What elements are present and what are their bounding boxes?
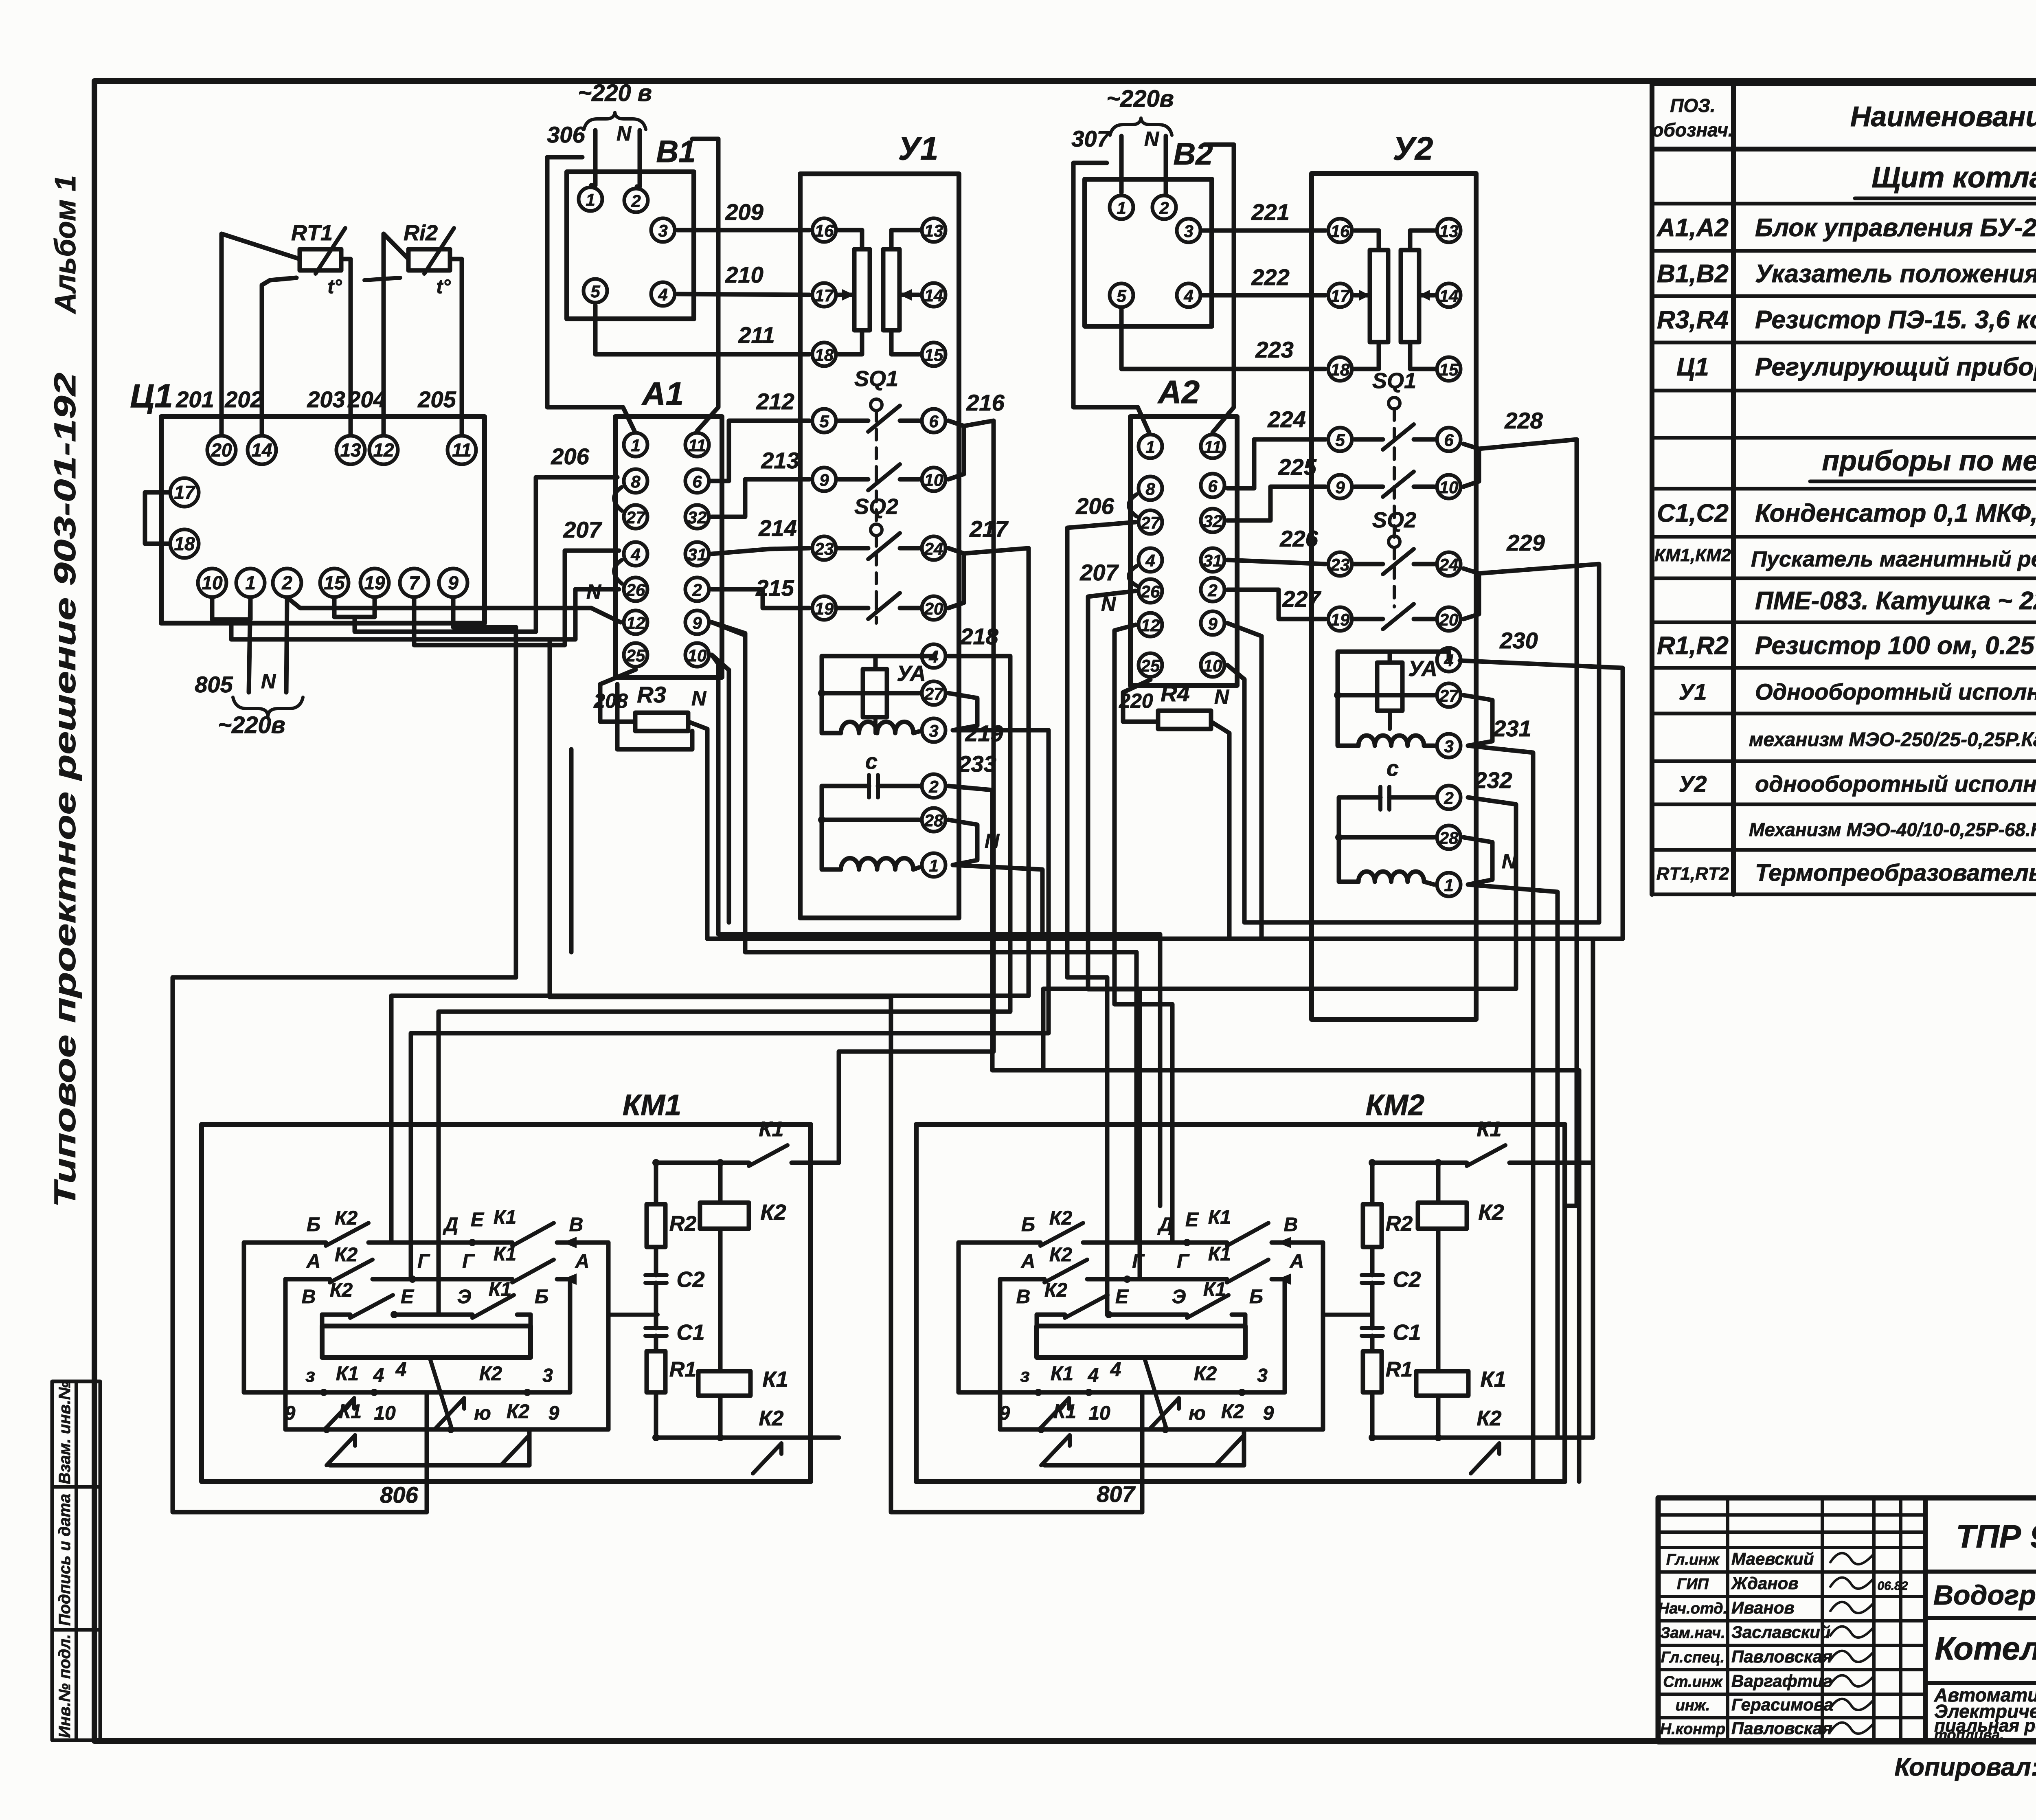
КМ1 resistor R1: [647, 1351, 665, 1392]
КМ2 capacitor C1: [1362, 1326, 1383, 1330]
svg-text:26: 26: [1141, 582, 1160, 601]
wire N into B1-2: [637, 130, 640, 187]
svg-text:К1: К1: [759, 1117, 784, 1141]
regulator block Ц1: [161, 417, 485, 623]
svg-text:Жданов: Жданов: [1731, 1574, 1799, 1593]
svg-text:Г: Г: [417, 1251, 430, 1272]
svg-text:К2: К2: [1049, 1244, 1073, 1266]
svg-text:SQ2: SQ2: [854, 494, 898, 519]
КМ2 C1 node link: [1323, 1313, 1372, 1317]
svg-text:Ст.инж: Ст.инж: [1663, 1673, 1723, 1690]
svg-text:11: 11: [1204, 437, 1222, 457]
svg-text:RТ1,RТ2: RТ1,RТ2: [1656, 864, 1729, 884]
КМ2 row2 left drop: [998, 1279, 1003, 1429]
R3 left lead: [600, 670, 636, 722]
svg-text:Н.контр: Н.контр: [1660, 1721, 1725, 1738]
svg-text:Д: Д: [443, 1214, 459, 1236]
svg-text:229: 229: [1506, 530, 1545, 555]
bus 1403 drop: [569, 749, 574, 952]
wire 206 into A2-27: [1067, 522, 1136, 1315]
thermocouple RT2: [408, 249, 450, 270]
SQ1 contact 5-6: [839, 419, 868, 423]
svg-text:К1: К1: [762, 1367, 788, 1392]
svg-text:213: 213: [761, 448, 799, 473]
brace 220v bottom: [233, 697, 303, 716]
У2 cap bracket: [1339, 797, 1371, 882]
A1-У1 wire 215: [712, 589, 810, 608]
wire 223: [1121, 310, 1325, 369]
relay УА of У2: [1377, 663, 1402, 711]
svg-text:28: 28: [924, 811, 943, 830]
У1 pot wiring 17 arrow: [839, 293, 854, 297]
svg-text:31: 31: [688, 545, 707, 564]
parts table grid: [1650, 83, 1654, 894]
svg-text:К2: К2: [1221, 1401, 1244, 1423]
B2 terminals: [1110, 195, 1133, 219]
svg-text:А: А: [306, 1251, 321, 1272]
svg-text:5: 5: [590, 282, 600, 301]
svg-text:В: В: [569, 1214, 584, 1236]
svg-text:С1: С1: [676, 1320, 704, 1345]
svg-text:15: 15: [924, 345, 943, 364]
svg-text:19: 19: [1331, 610, 1350, 629]
svg-text:R3,R4: R3,R4: [1657, 306, 1729, 334]
КМ2 motor diagonal: [1144, 1357, 1167, 1429]
svg-text:з: з: [305, 1365, 315, 1386]
svg-text:17: 17: [815, 286, 834, 305]
КМ1 K2 auxiliary contact bottom: [747, 1436, 839, 1440]
A1 bottom loop: [617, 684, 692, 749]
svg-text:Ц1: Ц1: [130, 378, 173, 415]
У2 N return: [1468, 885, 1558, 1438]
svg-text:1: 1: [1145, 437, 1155, 457]
svg-text:К2: К2: [1049, 1207, 1073, 1229]
svg-text:20: 20: [211, 439, 232, 461]
svg-text:Павловская: Павловская: [1731, 1719, 1832, 1738]
svg-text:Механизм МЭО-40/10-0,25Р-68.Ка: Механизм МЭО-40/10-0,25Р-68.Катушка~220в: [1749, 819, 2036, 840]
svg-text:А1: А1: [641, 375, 684, 412]
svg-text:К2: К2: [1044, 1280, 1068, 1301]
КМ1 row2 left drop: [283, 1279, 288, 1429]
svg-text:9: 9: [692, 613, 702, 632]
УА link: [873, 656, 878, 669]
svg-text:205: 205: [417, 386, 456, 412]
svg-text:R2: R2: [669, 1212, 697, 1236]
svg-text:5: 5: [1117, 286, 1126, 305]
svg-text:Инв.№ подл.: Инв.№ подл.: [56, 1634, 74, 1738]
svg-text:18: 18: [815, 345, 834, 364]
A1 bridge 4-26: [614, 560, 622, 584]
svg-text:У2: У2: [1678, 771, 1707, 797]
svg-text:11: 11: [688, 436, 706, 455]
A1-У1 wire 213: [712, 479, 810, 517]
У1 slide resistor left: [854, 249, 870, 330]
svg-text:Подпись и дата: Подпись и дата: [56, 1494, 74, 1626]
wire 306 into B1-1: [591, 130, 595, 185]
svg-text:3: 3: [658, 221, 667, 240]
У2 pot wiring 15: [1410, 342, 1434, 369]
svg-text:механизм МЭО-250/25-0,25Р.Кату: механизм МЭО-250/25-0,25Р.Катушка~220в: [1749, 729, 2036, 751]
У1 pot wiring 14 arrow: [900, 293, 919, 297]
svg-text:306: 306: [547, 122, 585, 147]
svg-text:10: 10: [1439, 478, 1459, 497]
svg-text:~220в: ~220в: [218, 712, 285, 738]
svg-text:R1: R1: [669, 1358, 696, 1381]
svg-text:А1,А2: А1,А2: [1656, 214, 1729, 242]
КМ2 resistor R2: [1363, 1204, 1382, 1247]
sidebar cell Инв.№ подл.: [52, 1630, 100, 1740]
svg-text:з: з: [1020, 1365, 1029, 1386]
svg-text:27: 27: [626, 508, 646, 527]
svg-text:R1: R1: [1386, 1358, 1413, 1381]
svg-text:А2: А2: [1157, 374, 1200, 410]
svg-text:221: 221: [1251, 199, 1289, 225]
svg-text:6: 6: [1444, 430, 1454, 450]
svg-text:18: 18: [174, 533, 195, 554]
svg-text:10: 10: [374, 1403, 396, 1424]
У2 232 return: [1043, 797, 1516, 1070]
У2 loop 28-1: [1463, 837, 1492, 885]
svg-text:К1: К1: [494, 1243, 516, 1265]
У2 229 run: [1479, 564, 1599, 922]
wire 233 link: [992, 1068, 1043, 1073]
svg-text:обознач.: обознач.: [1652, 119, 1733, 141]
svg-text:Е: Е: [1115, 1286, 1129, 1308]
svg-text:В1: В1: [656, 134, 695, 169]
svg-text:5: 5: [1335, 430, 1345, 450]
svg-text:Е: Е: [1185, 1209, 1199, 1231]
svg-text:2: 2: [1159, 198, 1169, 217]
svg-text:К2: К2: [760, 1200, 786, 1225]
svg-text:806: 806: [380, 1482, 418, 1508]
svg-text:8: 8: [631, 472, 641, 491]
У1 loop 24-20: [948, 548, 964, 608]
КМ1 bottom node wire: [656, 1436, 747, 1440]
svg-text:18: 18: [1331, 360, 1350, 379]
У1 pot wiring 18: [839, 330, 862, 354]
КМ1 contact row В-Б: [322, 1313, 350, 1317]
У2 pot wiring 14 arrow: [1419, 293, 1434, 298]
svg-text:Е: Е: [401, 1286, 415, 1308]
svg-text:однооборотный исполнительный: однооборотный исполнительный: [1755, 771, 2036, 797]
svg-text:1: 1: [245, 572, 256, 593]
Ц1 hook 10-1: [212, 597, 231, 619]
У2 SQ2 contact 19-20: [1355, 617, 1383, 621]
КМ1 resistor R2: [647, 1204, 665, 1247]
N bus horizontal: [707, 939, 1593, 1438]
svg-text:Б: Б: [307, 1214, 320, 1236]
A1 terminals: [624, 433, 647, 457]
brace 220в B2: [1110, 118, 1172, 135]
svg-text:Б: Б: [535, 1286, 548, 1308]
КМ2 bottom row 9-К1-10: [1000, 1427, 1323, 1432]
КМ2 K2 auxiliary contact bottom: [1465, 1436, 1593, 1440]
КМ1 under-row5 return loop: [330, 1463, 529, 1468]
КМ1 row1 left drop: [242, 1243, 246, 1392]
У2 SQ1 contact 9-10: [1355, 485, 1383, 489]
svg-text:25: 25: [1141, 656, 1160, 675]
svg-text:К1: К1: [336, 1363, 359, 1385]
svg-text:К2: К2: [335, 1207, 358, 1229]
КМ1 row2 right drop: [568, 1279, 573, 1392]
svg-text:ПМЕ-083. Катушка ~ 220в: ПМЕ-083. Катушка ~ 220в: [1755, 587, 2036, 615]
wire N into A2-12: [1115, 625, 1172, 1243]
svg-text:13: 13: [1439, 222, 1459, 241]
svg-text:11: 11: [452, 439, 472, 461]
У2 wire 27: [1338, 693, 1434, 698]
svg-text:207: 207: [1079, 560, 1119, 585]
svg-text:4: 4: [658, 285, 667, 304]
svg-text:9: 9: [448, 572, 459, 593]
svg-text:27: 27: [924, 684, 944, 703]
A1-9 wire down: [712, 622, 745, 922]
КМ2 bottom node wire: [1372, 1436, 1465, 1440]
КМ2 motor rectangle: [1037, 1326, 1245, 1357]
A2 bridge 4-26: [1129, 566, 1136, 586]
svg-text:225: 225: [1278, 454, 1316, 480]
svg-text:В: В: [1016, 1286, 1031, 1308]
svg-text:К2: К2: [1478, 1200, 1504, 1225]
wire N into B2-2: [1164, 136, 1168, 193]
svg-text:2: 2: [1444, 788, 1453, 808]
КМ1 row3 right drop: [529, 1315, 533, 1326]
svg-text:Гл.инж: Гл.инж: [1666, 1551, 1720, 1568]
svg-text:R4: R4: [1161, 681, 1190, 706]
svg-text:307: 307: [1071, 126, 1110, 151]
У2 loop 24-20: [1463, 569, 1479, 619]
Ц1 hook 15-19: [334, 597, 355, 617]
svg-text:6: 6: [929, 412, 939, 431]
actuator block У2: [1312, 173, 1476, 1019]
svg-text:SQ2: SQ2: [1372, 508, 1416, 532]
КМ1 bottom row 9-К1-10: [285, 1427, 608, 1432]
svg-text:Гл.спец.: Гл.спец.: [1661, 1649, 1725, 1666]
svg-text:К1: К1: [1208, 1207, 1231, 1228]
sidebar cell Подпись и дата: [52, 1487, 100, 1630]
svg-text:206: 206: [1075, 493, 1114, 519]
svg-text:4: 4: [630, 545, 640, 564]
svg-text:232: 232: [1474, 767, 1512, 793]
svg-text:N: N: [1144, 127, 1159, 150]
У1 wire 28: [822, 818, 919, 822]
svg-text:227: 227: [1282, 586, 1321, 612]
svg-text:В: В: [1284, 1214, 1298, 1236]
svg-text:Указатель положения ДУП-М: Указатель положения ДУП-М: [1755, 260, 2036, 288]
svg-text:211: 211: [738, 322, 774, 348]
svg-text:ю: ю: [1189, 1403, 1206, 1424]
svg-text:9: 9: [285, 1403, 296, 1424]
svg-text:К1: К1: [1053, 1401, 1076, 1423]
brace 220в B1: [584, 112, 646, 130]
svg-text:Ц1: Ц1: [1676, 353, 1709, 381]
svg-text:207: 207: [563, 517, 602, 542]
svg-text:19: 19: [815, 599, 834, 618]
svg-text:223: 223: [1255, 337, 1293, 362]
svg-text:~220в: ~220в: [1106, 86, 1174, 112]
svg-text:215: 215: [755, 575, 794, 601]
svg-text:9: 9: [1335, 478, 1345, 497]
svg-text:ю: ю: [474, 1403, 491, 1424]
svg-text:С1,С2: С1,С2: [1657, 499, 1729, 527]
КМ1 K1 auxiliary contact top: [749, 1145, 788, 1166]
svg-text:КМ2: КМ2: [1366, 1089, 1424, 1122]
svg-text:4: 4: [395, 1359, 407, 1381]
У1 loop 28-1: [948, 820, 977, 865]
svg-text:А: А: [575, 1251, 590, 1272]
wire 218 run: [439, 656, 1010, 1315]
У1 pot wiring 16: [839, 230, 862, 249]
У1 relay bracket: [822, 656, 934, 733]
svg-text:Е: Е: [471, 1209, 485, 1231]
svg-text:~220 в: ~220 в: [578, 80, 652, 106]
КМ1 top node wire: [656, 1161, 749, 1165]
svg-text:2: 2: [281, 572, 292, 593]
svg-text:Ri2: Ri2: [404, 221, 438, 245]
wire Ц1-9 down: [453, 597, 516, 977]
svg-text:1: 1: [1444, 876, 1453, 895]
A2-У2 wire 227: [1227, 590, 1325, 619]
svg-text:SQ1: SQ1: [1372, 369, 1416, 393]
SQ2 contact 19-20: [839, 606, 868, 610]
svg-text:В: В: [302, 1286, 316, 1308]
svg-text:231: 231: [1493, 716, 1531, 741]
wire 221: [1202, 228, 1325, 233]
svg-text:222: 222: [1251, 264, 1289, 290]
КМ2 row1 left drop: [957, 1243, 961, 1392]
magnetic starter КМ2 box: [916, 1124, 1565, 1482]
КМ1 contact row Б-В: [244, 1240, 326, 1245]
svg-text:9: 9: [999, 1403, 1010, 1424]
svg-text:Павловская: Павловская: [1731, 1647, 1832, 1666]
svg-text:203: 203: [307, 386, 345, 412]
wire 211: [595, 305, 810, 354]
svg-text:202: 202: [224, 386, 263, 412]
svg-text:Водогрейные котлы типа КВ-Г: Водогрейные котлы типа КВ-ГМ: [1933, 1580, 2036, 1611]
svg-text:инж.: инж.: [1676, 1697, 1710, 1714]
svg-text:Наименование: Наименование: [1850, 101, 2036, 132]
svg-text:N: N: [617, 122, 632, 145]
svg-text:13: 13: [340, 439, 361, 461]
svg-text:216: 216: [966, 390, 1005, 415]
wire N Ц1-2 to A1-12: [287, 597, 621, 622]
wire 216 run: [839, 421, 994, 1163]
КМ2 row3 right drop: [1243, 1315, 1248, 1326]
svg-text:Копировал: Моисеева: Копировал: Моисеева: [1894, 1753, 2036, 1781]
КМ1 relay coil К1: [698, 1371, 750, 1396]
svg-text:К1: К1: [489, 1279, 511, 1300]
Ц1 bottom terminals: [198, 569, 226, 597]
svg-text:2: 2: [928, 777, 938, 796]
У2 terminals: [1328, 219, 1352, 242]
svg-text:К1: К1: [1203, 1279, 1226, 1300]
svg-text:приборы по месту: приборы по месту: [1822, 445, 2036, 476]
wire N drop from Ц1-1: [249, 597, 250, 692]
wire loop N to A1-11: [692, 139, 718, 431]
svg-text:32: 32: [688, 508, 707, 527]
У2 pot wiring 16: [1355, 231, 1379, 250]
У2 pot wiring 17 arrow: [1355, 293, 1370, 298]
У1 cap bracket: [822, 786, 858, 869]
svg-text:14: 14: [1439, 286, 1459, 305]
svg-text:4: 4: [1110, 1359, 1121, 1381]
wire 222: [1202, 293, 1325, 298]
svg-text:Б: Б: [1249, 1286, 1263, 1308]
wire from Ц1-7 (207): [414, 551, 619, 645]
svg-text:Иванов: Иванов: [1731, 1598, 1795, 1617]
svg-text:06.82: 06.82: [1877, 1579, 1908, 1593]
bus wire 807: [550, 639, 1142, 1512]
svg-text:4: 4: [1088, 1365, 1099, 1386]
A2 terminals: [1139, 435, 1162, 458]
svg-text:Г: Г: [1132, 1251, 1145, 1272]
svg-text:32: 32: [1203, 512, 1222, 531]
svg-text:206: 206: [551, 443, 589, 469]
Ц1 top terminals: [207, 436, 236, 464]
svg-text:228: 228: [1504, 408, 1543, 433]
svg-text:с: с: [1387, 756, 1399, 781]
У2 term4 stub: [1447, 652, 1451, 660]
У2 slide resistor right: [1401, 250, 1419, 342]
svg-text:К2: К2: [335, 1244, 358, 1266]
КМ1 motor rectangle: [322, 1326, 531, 1357]
svg-text:17: 17: [1331, 286, 1350, 305]
svg-text:У2: У2: [1393, 130, 1433, 167]
svg-text:Заславский: Заславский: [1731, 1622, 1830, 1642]
У2 coil upper: [1358, 735, 1424, 746]
svg-text:13: 13: [924, 221, 943, 240]
У2 231 return: [1468, 746, 1533, 1482]
svg-text:с: с: [865, 749, 878, 774]
svg-text:8: 8: [1145, 479, 1155, 498]
SQ2 contact 23-24: [839, 546, 868, 551]
svg-text:Маевский: Маевский: [1731, 1549, 1814, 1568]
УА link У2: [1388, 652, 1392, 663]
svg-text:Б: Б: [1021, 1214, 1035, 1236]
svg-text:1: 1: [929, 856, 938, 875]
R4 right lead: [1211, 722, 1229, 939]
svg-text:У1: У1: [898, 130, 939, 167]
svg-text:26: 26: [626, 580, 645, 599]
svg-text:А: А: [1021, 1251, 1036, 1272]
svg-text:топлива.: топлива.: [1934, 1726, 2004, 1743]
У1 loop 27-3: [948, 693, 977, 730]
svg-text:КМ1,КМ2: КМ1,КМ2: [1654, 545, 1731, 565]
КМ2 column verticals: [1370, 1163, 1375, 1204]
svg-text:224: 224: [1267, 406, 1305, 432]
svg-text:ГИП: ГИП: [1677, 1576, 1709, 1593]
svg-text:2: 2: [631, 191, 641, 211]
svg-text:Нач.отд.: Нач.отд.: [1658, 1600, 1727, 1617]
svg-text:3: 3: [542, 1365, 553, 1386]
КМ2 under-row5 return loop: [1044, 1463, 1244, 1468]
svg-text:17: 17: [174, 482, 196, 503]
svg-text:SQ1: SQ1: [854, 367, 898, 391]
svg-text:К1: К1: [1208, 1243, 1231, 1265]
svg-text:10: 10: [924, 470, 943, 490]
wire loop N to A2-11: [1204, 145, 1234, 432]
КМ2 top node wire: [1372, 1161, 1467, 1165]
R3 right lead N drop: [688, 722, 707, 939]
У1 pot wiring 15: [891, 330, 919, 354]
svg-text:15: 15: [324, 572, 345, 593]
svg-text:Регулирующий прибор Р25.2.1: Регулирующий прибор Р25.2.1: [1755, 353, 2036, 381]
svg-text:Котел КВ-ГМ-50: Котел КВ-ГМ-50: [1935, 1630, 2036, 1666]
wire loop 307 to A2-1: [1073, 163, 1149, 432]
КМ1 motor diagonal: [430, 1357, 452, 1429]
svg-text:12: 12: [373, 439, 394, 461]
svg-text:210: 210: [725, 262, 763, 288]
svg-text:5: 5: [819, 412, 829, 431]
